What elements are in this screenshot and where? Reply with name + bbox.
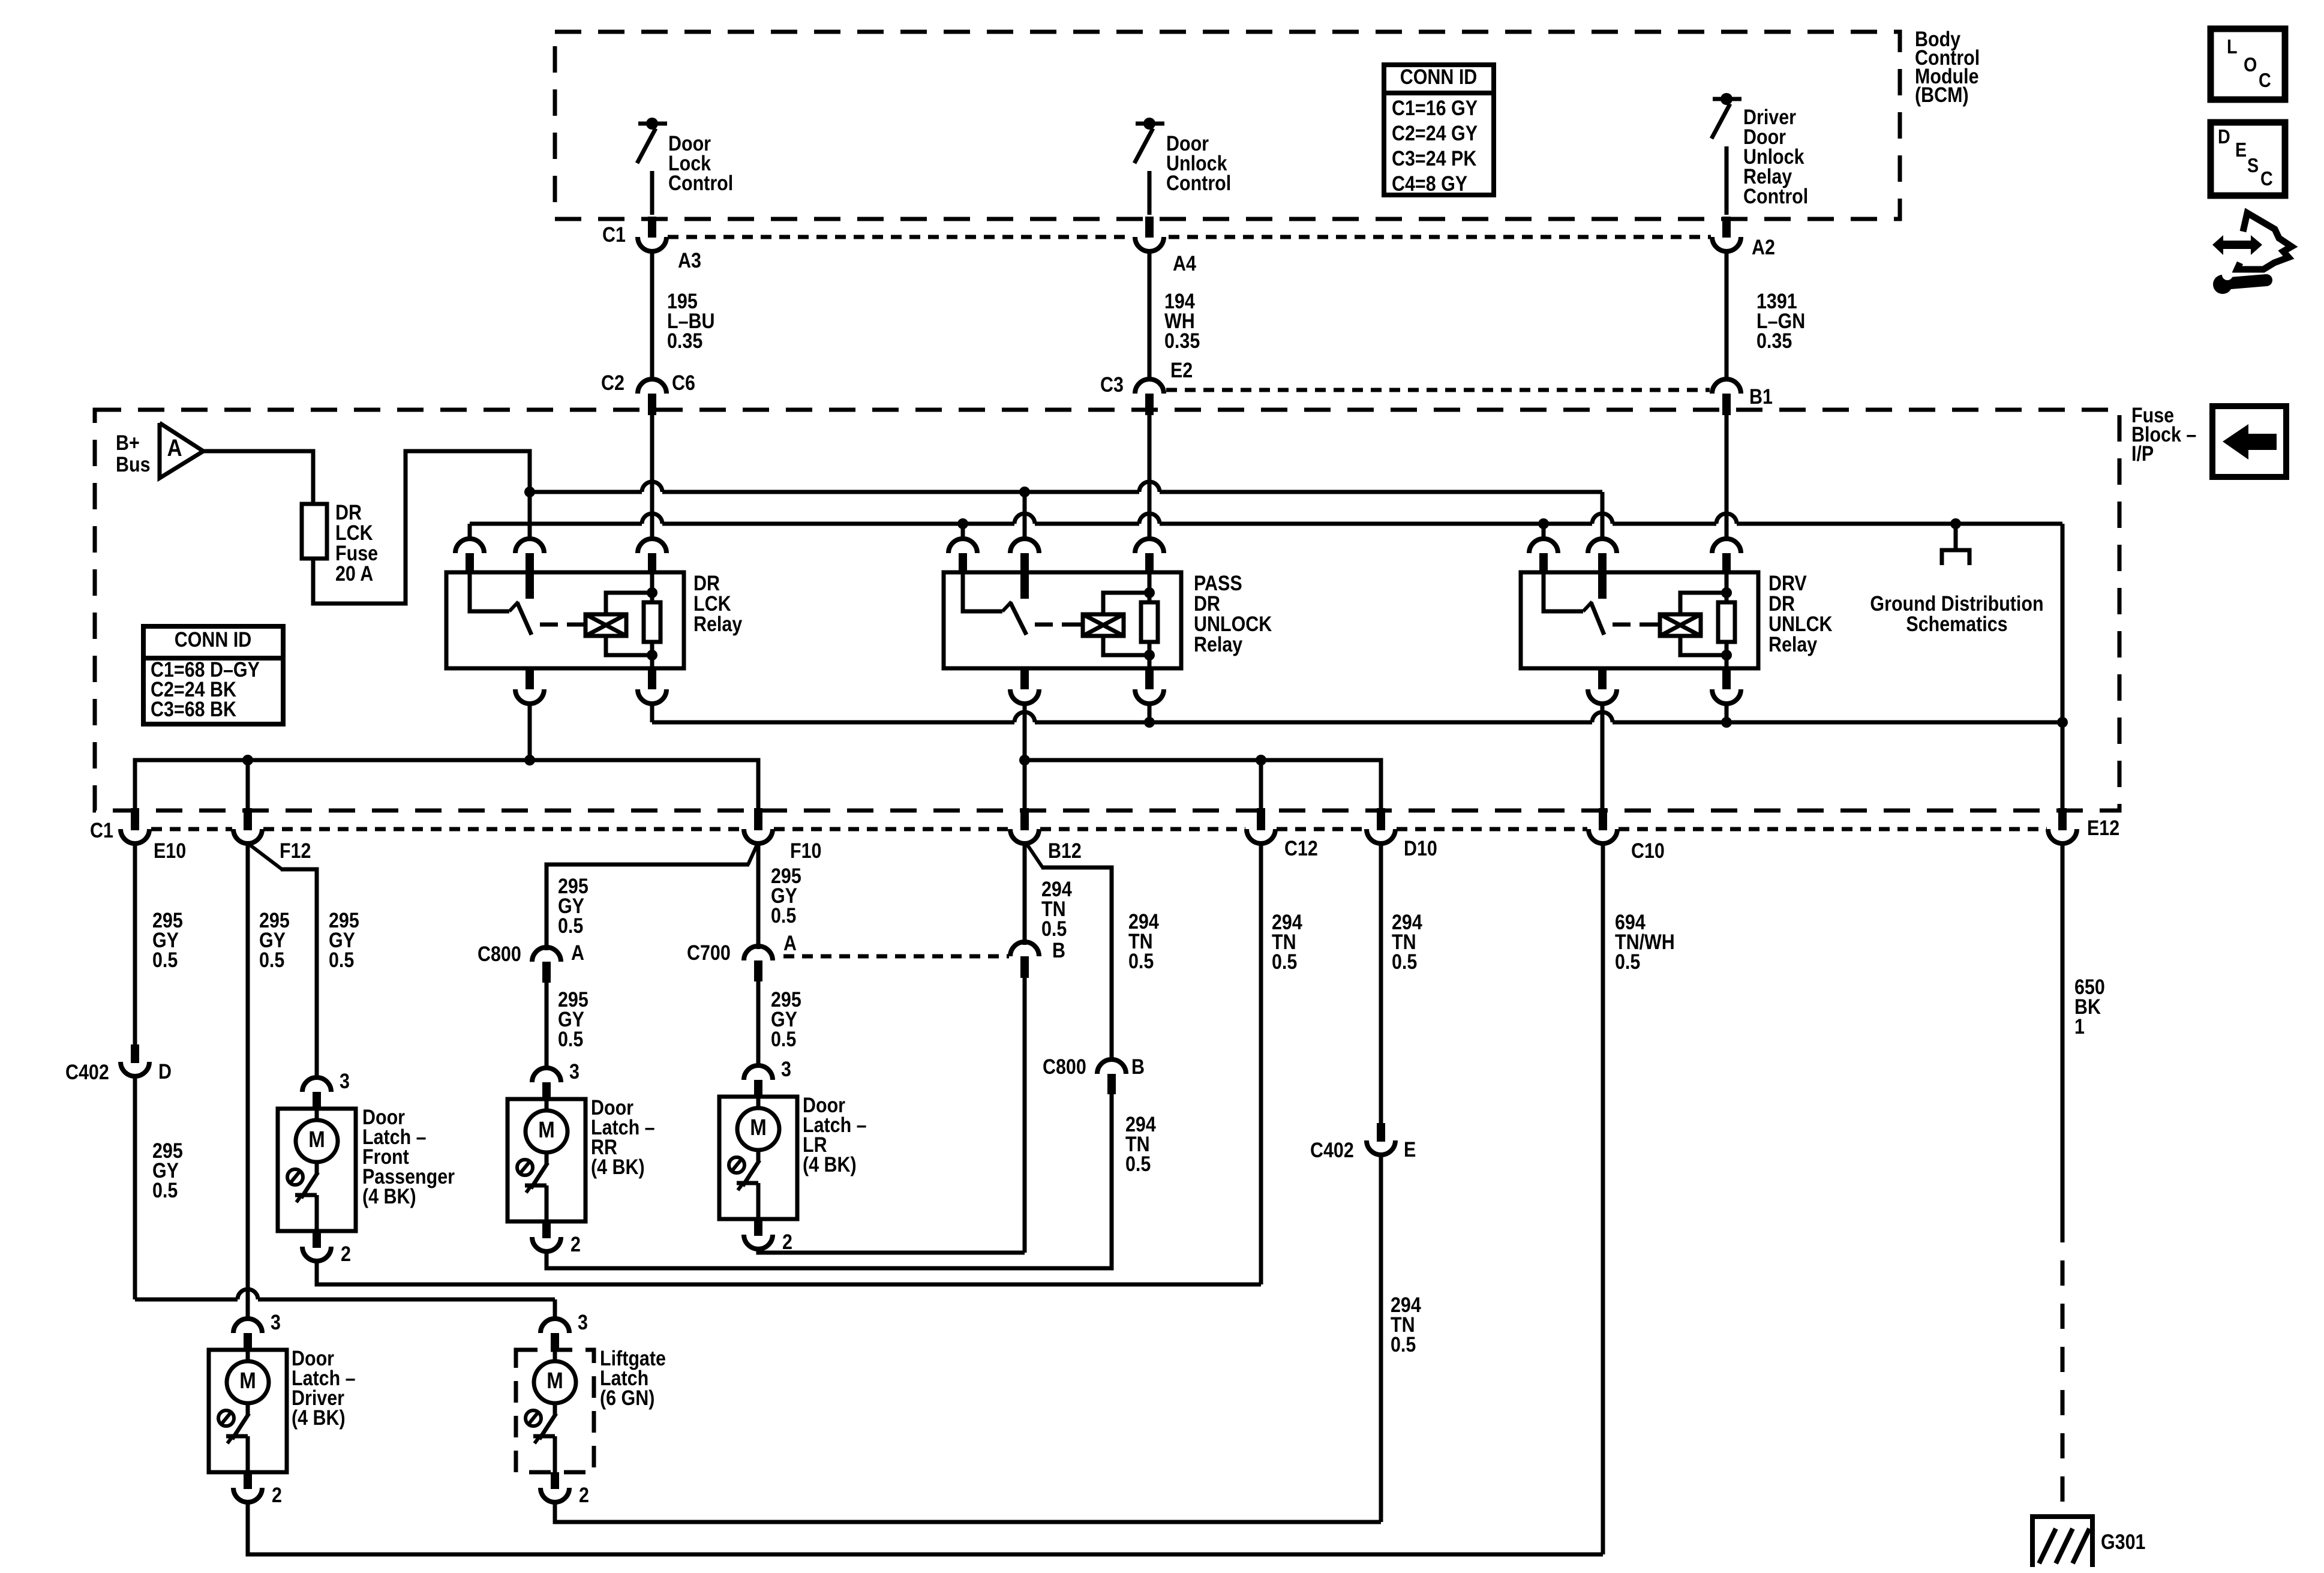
svg-text:20 A: 20 A	[335, 562, 373, 585]
svg-text:0.35: 0.35	[667, 329, 702, 352]
svg-text:E12: E12	[2087, 816, 2119, 839]
icon DESC	[2211, 122, 2285, 196]
wire BCM C6 to relay1 pin3	[650, 415, 654, 539]
wire BCM E2 to relay2 pin3	[1148, 415, 1152, 539]
svg-text:C2=24 GY: C2=24 GY	[1392, 121, 1478, 145]
svg-text:S: S	[2247, 154, 2259, 176]
svg-text:B: B	[1052, 938, 1065, 962]
svg-text:(4 BK): (4 BK)	[292, 1406, 346, 1429]
connector exit B12 (fuse block bottom)	[1020, 808, 1029, 830]
wire bus2 corner down to E12 branch	[2061, 524, 2065, 810]
svg-text:E: E	[1404, 1137, 1416, 1161]
wire BCM B1 to relay3 pin3	[1725, 415, 1729, 539]
svg-text:C1: C1	[602, 223, 626, 246]
svg-text:0.5: 0.5	[1615, 950, 1640, 973]
dotted connector line fuse bottom	[151, 827, 232, 831]
relay DR LCK Relay coil link dashed	[540, 623, 575, 627]
relay DRV DR UNLCK Relay bottom pins	[1598, 668, 1607, 689]
svg-text:E: E	[2235, 139, 2247, 161]
svg-text:(4 BK): (4 BK)	[803, 1152, 857, 1176]
motor latch Door Latch LR motor M	[756, 1097, 761, 1109]
wire B+ to fuse	[203, 451, 313, 504]
wire 295 GY 0.5 (F12 to driver latch)	[246, 842, 250, 1319]
svg-text:D: D	[158, 1059, 172, 1083]
svg-text:D10: D10	[1404, 836, 1437, 860]
wire 294 TN 0.5 (B12 to C700-B)	[1023, 842, 1027, 945]
svg-text:C1: C1	[90, 818, 113, 842]
motor latch Door Latch RR box	[508, 1099, 585, 1221]
motor latch Door Latch RR pin 2	[542, 1221, 551, 1238]
dashed line connector C700 A to B	[783, 954, 1009, 959]
wire 295 GY 0.5 (F12 to front passenger latch)	[250, 845, 282, 869]
connector C800 pin B	[1097, 1059, 1126, 1074]
svg-text:C4=8 GY: C4=8 GY	[1392, 172, 1467, 195]
svg-text:C1=16 GY: C1=16 GY	[1392, 96, 1478, 119]
connector exit E12 (fuse block bottom)	[2058, 808, 2067, 830]
svg-text:B12: B12	[1048, 839, 1082, 862]
motor latch Door Latch Front Passenger switch	[315, 1162, 319, 1173]
wire bus1 to relay3 pin2	[1601, 492, 1605, 539]
svg-text:C3=68 BK: C3=68 BK	[151, 697, 236, 721]
wire relay3 coil out	[1725, 703, 1729, 722]
CONN ID table (BCM)	[1384, 65, 1494, 195]
relay DR LCK Relay resistor	[650, 574, 654, 668]
relay DR LCK Relay box	[446, 572, 684, 668]
svg-text:A: A	[783, 931, 797, 954]
connector C700 pin A	[744, 946, 773, 960]
svg-text:0.5: 0.5	[152, 1178, 178, 1202]
wire 694 TN/WH 0.5 (C10 to driver latch pin2)	[1601, 842, 1605, 1554]
svg-text:1: 1	[2074, 1014, 2085, 1038]
bus line 2 (B+ lower)	[470, 522, 642, 526]
relay DRV DR UNLCK Relay switch	[1544, 574, 1583, 611]
connector exit E10 (fuse block bottom)	[131, 808, 139, 830]
svg-text:M: M	[239, 1368, 256, 1394]
wire 294 TN 0.5 (C402-E to liftgate pin2)	[1379, 1155, 1383, 1522]
svg-text:C2: C2	[601, 371, 624, 394]
svg-text:Control: Control	[1166, 171, 1231, 194]
svg-text:A2: A2	[1752, 235, 1775, 259]
svg-text:B1: B1	[1749, 385, 1773, 408]
svg-text:O: O	[2244, 53, 2257, 76]
motor latch Door Latch Front Passenger motor M	[315, 1109, 319, 1121]
connector exit C12 (fuse block bottom)	[1257, 808, 1265, 830]
svg-text:C402: C402	[1310, 1138, 1354, 1161]
motor latch Door Latch Driver motor M	[246, 1350, 250, 1362]
connector C700 pin B	[1010, 942, 1039, 956]
svg-text:Bus: Bus	[116, 452, 151, 476]
wire to C12 exit	[1259, 760, 1263, 810]
svg-text:2: 2	[579, 1483, 589, 1506]
relay DRV DR UNLCK Relay coil	[1660, 614, 1701, 636]
wire relay1 coil out	[650, 703, 654, 722]
motor latch Door Latch RR pin 3	[532, 1068, 561, 1082]
svg-text:0.5: 0.5	[1125, 1152, 1151, 1175]
wire 650 BK 1 (E12 down)	[2061, 842, 2065, 1217]
motor latch Door Latch RR switch	[545, 1152, 549, 1164]
svg-text:F12: F12	[280, 839, 311, 862]
svg-text:E10: E10	[154, 839, 186, 862]
net B: relay2 out to C12/D10	[1025, 760, 1381, 810]
svg-text:0.35: 0.35	[1164, 329, 1200, 352]
svg-text:3: 3	[578, 1310, 588, 1334]
motor latch Door Latch LR pin 2	[754, 1219, 762, 1236]
relay PASS DR UNLOCK Relay coil link dashed	[1035, 623, 1072, 627]
relay PASS DR UNLOCK Relay coil	[1083, 614, 1124, 636]
svg-text:M: M	[308, 1127, 325, 1152]
svg-text:0.5: 0.5	[1392, 950, 1417, 973]
svg-text:A4: A4	[1173, 251, 1197, 275]
svg-text:E2: E2	[1170, 358, 1193, 382]
motor latch Door Latch Driver switch	[246, 1403, 250, 1415]
svg-text:C: C	[2259, 69, 2271, 91]
svg-text:0.5: 0.5	[1272, 950, 1297, 973]
svg-text:0.5: 0.5	[1391, 1332, 1416, 1356]
svg-text:C: C	[2260, 167, 2273, 190]
svg-text:0.35: 0.35	[1756, 329, 1792, 352]
dotted connector line E2-B1 row	[1166, 388, 1710, 392]
motor latch Door Latch LR switch	[756, 1150, 761, 1161]
motor latch Door Latch Front Passenger box	[278, 1109, 356, 1231]
connector entry at x=2878 (fuse block top)	[1712, 379, 1741, 394]
svg-text:L: L	[2227, 35, 2238, 58]
icon arrow box (Fuse Block)	[2212, 406, 2286, 477]
svg-text:A: A	[167, 434, 182, 461]
svg-text:C402: C402	[65, 1060, 109, 1083]
connector entry at x=1916 (fuse block top)	[1135, 379, 1164, 394]
svg-text:M: M	[750, 1115, 767, 1140]
Fuse Block dashed box	[95, 410, 2119, 810]
svg-text:0.5: 0.5	[771, 1027, 796, 1050]
svg-text:0.5: 0.5	[558, 1027, 583, 1050]
svg-text:Relay: Relay	[693, 612, 743, 635]
dashed wire to G301	[2061, 1217, 2065, 1517]
svg-text:C6: C6	[672, 371, 695, 394]
svg-text:I/P: I/P	[2131, 442, 2154, 465]
relay PASS DR UNLOCK Relay top pins	[948, 539, 977, 553]
wire relay2 pin2 feed	[1023, 492, 1027, 539]
svg-text:0.5: 0.5	[152, 948, 178, 971]
relay PASS DR UNLOCK Relay bottom pins	[1020, 668, 1029, 689]
svg-text:C10: C10	[1631, 839, 1665, 862]
motor latch Liftgate Latch box	[516, 1350, 594, 1472]
motor latch Door Latch Front Passenger pin 2	[313, 1231, 321, 1248]
wire 295 GY 0.5 (C800-A to RR latch)	[545, 983, 549, 1068]
motor latch Door Latch LR box	[719, 1097, 797, 1219]
wire C700-B down to LR latch pin2	[1023, 978, 1027, 1253]
svg-text:Relay: Relay	[1768, 632, 1818, 656]
svg-text:CONN ID: CONN ID	[175, 628, 252, 651]
relay PASS DR UNLOCK Relay box	[944, 572, 1181, 668]
relay DR LCK Relay top pins	[455, 539, 484, 553]
connector entry at x=1087 (fuse block top)	[638, 379, 666, 394]
svg-text:(4 BK): (4 BK)	[362, 1184, 416, 1208]
wire relay2 coil out	[1148, 703, 1152, 722]
svg-text:A3: A3	[678, 248, 701, 272]
svg-text:M: M	[547, 1368, 563, 1394]
wire 295 GY 0.5 (F10 to C800)	[748, 845, 757, 864]
motor latch Liftgate Latch pin 3	[541, 1319, 569, 1333]
switch Driver Door Unlock Relay Control	[1713, 97, 1742, 101]
svg-text:(BCM): (BCM)	[1915, 83, 1969, 106]
svg-text:F10: F10	[790, 839, 821, 862]
svg-text:(6 GN): (6 GN)	[600, 1386, 654, 1409]
connector exit C10 (fuse block bottom)	[1599, 808, 1607, 830]
svg-text:M: M	[538, 1117, 555, 1143]
icon vehicle with double arrow and wrench	[2212, 235, 2262, 255]
wire E10 to liftgate feed	[135, 1298, 238, 1302]
fuse DR LCK Fuse 20 A	[302, 504, 327, 559]
motor latch Door Latch Driver pin 2	[244, 1472, 252, 1489]
BCM dashed box (Body Control Module)	[555, 32, 1900, 219]
wire relay3 switch out (C10)	[1601, 703, 1605, 810]
wire 294 TN 0.5 (D10 to C402-E)	[1379, 842, 1383, 1123]
connector exit D10 (fuse block bottom)	[1377, 808, 1385, 830]
wire 295 GY 0.5 (F10 to C700)	[756, 842, 761, 949]
motor latch Liftgate Latch switch	[553, 1403, 557, 1415]
svg-text:CONN ID: CONN ID	[1400, 65, 1478, 88]
relay DRV DR UNLCK Relay resistor	[1725, 574, 1729, 668]
svg-text:0.5: 0.5	[329, 948, 354, 971]
connector C402 pin E	[1377, 1123, 1385, 1142]
wire relay2 switch out (B12)	[1023, 703, 1027, 810]
svg-text:C700: C700	[687, 941, 731, 964]
svg-text:C3=24 PK: C3=24 PK	[1392, 146, 1477, 170]
svg-text:C12: C12	[1284, 836, 1318, 860]
wire 1391 L-GN 0.35	[1725, 250, 1729, 379]
relay PASS DR UNLOCK Relay resistor	[1148, 574, 1152, 668]
relay DRV DR UNLCK Relay coil link dashed	[1613, 623, 1649, 627]
svg-text:2: 2	[782, 1230, 792, 1253]
relay PASS DR UNLOCK Relay switch	[963, 574, 1002, 611]
svg-text:B+: B+	[116, 431, 140, 454]
relay DR LCK Relay coil	[585, 614, 626, 636]
svg-text:B: B	[1131, 1055, 1145, 1078]
wire 294 TN 0.5 (C12 to FP latch pin2)	[1259, 842, 1263, 1284]
svg-text:A: A	[571, 941, 584, 964]
motor latch Door Latch Driver box	[209, 1350, 287, 1472]
svg-text:0.5: 0.5	[1128, 949, 1154, 972]
svg-text:2: 2	[272, 1483, 282, 1506]
svg-text:(4 BK): (4 BK)	[591, 1155, 645, 1178]
svg-text:Relay: Relay	[1194, 632, 1243, 656]
svg-text:3: 3	[340, 1069, 350, 1092]
connector C800 pin A	[532, 947, 561, 962]
svg-text:0.5: 0.5	[771, 903, 796, 927]
svg-text:0.5: 0.5	[558, 914, 583, 937]
motor latch Door Latch Driver pin 3	[233, 1319, 262, 1333]
connector exit F10 (fuse block bottom)	[754, 808, 762, 830]
svg-text:Schematics: Schematics	[1906, 612, 2007, 635]
svg-text:C3: C3	[1100, 373, 1124, 396]
wire fuse to bus junction	[313, 451, 530, 604]
svg-text:C800: C800	[1043, 1055, 1086, 1078]
wire 295 GY 0.5 (E10 lower)	[133, 1076, 137, 1299]
relay DR LCK Relay switch	[470, 574, 509, 611]
connector exit F12 (fuse block bottom)	[244, 808, 252, 830]
svg-text:G301: G301	[2101, 1530, 2145, 1553]
wire relay2 pin1 feed	[961, 524, 965, 539]
motor latch Liftgate Latch motor M	[553, 1350, 557, 1362]
ground distribution tap	[1954, 524, 1958, 550]
relay DR LCK Relay bottom pins	[526, 668, 534, 689]
svg-text:Control: Control	[1743, 184, 1808, 208]
wire bus2 to relay1 pin1	[468, 524, 472, 539]
wire 295 GY 0.5 (C700-A to LR latch)	[756, 981, 761, 1065]
connector C402 pin D	[131, 1044, 139, 1063]
wire 195 L-BU 0.35	[650, 250, 654, 379]
icon LOC	[2211, 29, 2285, 100]
wire 294 TN 0.5 (B12 to C800-B)	[1026, 843, 1043, 867]
wire relay3 pin1 feed	[1542, 524, 1546, 539]
switch Door Unlock Control	[1136, 122, 1164, 126]
connector pin A3 (BCM exit)	[648, 217, 656, 238]
svg-text:Control: Control	[668, 171, 733, 194]
ground G301	[2030, 1514, 2095, 1519]
wire 295 GY 0.5 (E10 upper)	[133, 842, 137, 1044]
motor latch Door Latch RR motor M	[545, 1099, 549, 1112]
svg-text:D: D	[2218, 125, 2230, 148]
motor latch Liftgate Latch pin 2	[551, 1472, 559, 1489]
svg-text:3: 3	[271, 1310, 281, 1334]
svg-text:3: 3	[781, 1057, 791, 1080]
wire 194 WH 0.35	[1148, 250, 1152, 379]
svg-text:0.5: 0.5	[259, 948, 284, 971]
svg-text:C800: C800	[478, 942, 521, 965]
connector pin A4 (BCM exit)	[1145, 217, 1154, 238]
relay DRV DR UNLCK Relay top pins	[1529, 539, 1558, 553]
motor latch Door Latch Front Passenger pin 3	[302, 1077, 331, 1092]
svg-text:2: 2	[571, 1232, 581, 1256]
wire relay1 switch out	[528, 703, 532, 760]
net A: relay1 out to E10/F12/F10	[135, 760, 758, 810]
motor latch Door Latch LR pin 3	[744, 1065, 773, 1080]
connector pin A2 (BCM exit)	[1722, 217, 1731, 238]
switch Door Lock Control	[638, 122, 667, 126]
bus line 1 (B+ upper)	[530, 490, 642, 494]
dotted connector line C1 row	[668, 235, 1131, 239]
svg-text:2: 2	[341, 1242, 351, 1265]
CONN ID table (fuse block)	[143, 626, 283, 724]
B+ Bus triangle A	[160, 423, 203, 478]
coil return bus to E12	[652, 721, 1014, 725]
relay DRV DR UNLCK Relay box	[1521, 572, 1758, 668]
svg-text:3: 3	[569, 1059, 580, 1083]
svg-text:0.5: 0.5	[1041, 917, 1067, 940]
wire to F12 exit	[246, 760, 250, 810]
